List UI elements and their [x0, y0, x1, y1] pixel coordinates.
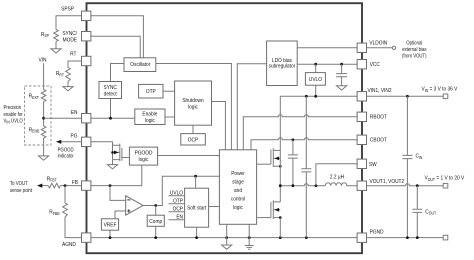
pin AGND — [82, 233, 91, 242]
wire SW rail with hop — [280, 184, 325, 186]
transistor Q3 PGOOD pulldown — [91, 142, 113, 145]
box LDO bias subregulator — [267, 41, 298, 86]
resistor RSP — [54, 30, 59, 42]
resistor RRT — [66, 68, 71, 82]
node CIN-PGND junction — [406, 236, 409, 239]
pin SYNC/MODE — [82, 32, 91, 41]
wire VLDOIN external — [367, 47, 393, 49]
svg-text:VIN: VIN — [39, 57, 47, 64]
svg-text:OTP: OTP — [173, 198, 183, 205]
resistor RENB — [41, 126, 46, 138]
box enable logic — [135, 109, 165, 125]
svg-text:PG: PG — [71, 133, 78, 140]
svg-text:OCP: OCP — [188, 137, 199, 144]
wire VIN rail — [280, 96, 357, 150]
box shutdown logic — [175, 81, 212, 125]
node comp junction — [154, 204, 157, 207]
svg-text:EN: EN — [176, 214, 183, 221]
terminal PGND — [443, 235, 448, 240]
node soft start-AGND junction — [195, 236, 198, 239]
svg-text:Oscillator: Oscillator — [130, 62, 150, 69]
IC outer boundary box — [87, 3, 363, 253]
svg-text:SPSP: SPSP — [61, 6, 74, 13]
ground earth (power stage) — [245, 246, 254, 250]
node VREF-AGND junction — [109, 236, 112, 239]
capacitor CBOOT internal — [288, 140, 298, 186]
op-amp U2 error amplifier — [126, 196, 143, 216]
wire enable logic to shutdown logic — [165, 116, 175, 118]
wire SW node vertical — [279, 150, 281, 185]
capacitor input internal — [301, 96, 311, 237]
svg-text:RT: RT — [70, 51, 77, 58]
wire RT pin to RRT — [68, 61, 82, 68]
svg-text:stage: stage — [232, 179, 244, 186]
inductor L1 2.2uH — [325, 183, 357, 186]
wire PG external — [58, 141, 82, 143]
wire FB external to RFBT — [60, 185, 81, 187]
svg-text:VREF: VREF — [104, 222, 117, 229]
box oscillator U-OSC — [124, 58, 156, 72]
node Q2 source-PGND junction — [279, 236, 282, 239]
arrow to VOUT sense point — [37, 184, 42, 188]
pin FB — [82, 181, 91, 190]
node VIN-UVLO junction — [314, 95, 317, 98]
wire soft start top — [195, 176, 197, 188]
resistor RFBB — [63, 203, 68, 217]
node input cap-PGND junction — [305, 236, 308, 239]
svg-text:UVLO: UVLO — [309, 77, 322, 84]
wire CBOOT internal with hops — [251, 138, 357, 150]
node EN internal junction — [109, 117, 112, 120]
box soft start — [185, 188, 209, 227]
wire SYNC/MODE internal to oscillator — [91, 36, 140, 58]
box VREF — [101, 219, 118, 230]
wire power stage ground 1 — [226, 224, 228, 245]
wire soft start to power stage — [209, 206, 220, 208]
arrow PGOOD indicator — [56, 140, 61, 144]
node VCC-cap junction — [340, 63, 343, 66]
wire shutdown logic to power stage — [212, 102, 226, 150]
node soft start junction — [194, 175, 197, 178]
wire VIN down to REXT — [43, 63, 45, 89]
svg-text:PGOOD: PGOOD — [58, 147, 75, 154]
box UVLO — [305, 73, 325, 86]
svg-text:external bias: external bias — [402, 47, 427, 54]
svg-text:AGND: AGND — [62, 242, 76, 249]
resistor REXT — [41, 90, 46, 102]
wire FB to error amp input — [110, 186, 126, 201]
box power stage and control logic — [219, 150, 256, 225]
pin RBOOT — [357, 112, 366, 121]
wire VCC to UVLO — [315, 64, 317, 72]
node Comp-AGND junction — [154, 236, 157, 239]
svg-text:EN: EN — [71, 110, 78, 117]
node CBOOT cap top — [292, 138, 295, 141]
svg-text:Comp: Comp — [149, 218, 162, 225]
pin VIN1 VIN2 — [357, 92, 366, 101]
svg-text:Soft start: Soft start — [187, 205, 207, 212]
capacitor CIN — [402, 96, 412, 237]
pin SW — [357, 159, 366, 168]
svg-text:2.2 µH: 2.2 µH — [330, 174, 344, 181]
box SYNC detect — [99, 82, 122, 99]
node COUT-PGND junction — [416, 236, 419, 239]
svg-text:logic: logic — [145, 118, 155, 125]
wire SYNC detect to EN line — [110, 99, 112, 119]
wire PGOOD logic to power stage — [158, 155, 220, 157]
wire oscillator to power stage — [156, 64, 232, 150]
svg-text:VLDOIN: VLDOIN — [369, 40, 387, 47]
wire VIN external — [367, 95, 444, 97]
wire soft start to AGND rail — [196, 227, 198, 237]
svg-text:indicator: indicator — [58, 153, 75, 160]
svg-text:OTP: OTP — [146, 89, 156, 96]
terminal optional bias circle — [392, 46, 395, 49]
svg-text:UVLO: UVLO — [170, 190, 183, 197]
ground (power stage analog) — [222, 245, 232, 249]
capacitor VCC bypass — [336, 64, 347, 86]
svg-text:logic: logic — [188, 104, 198, 111]
wire PGOOD logic gate — [122, 157, 129, 159]
wire VREF to error amp input — [115, 211, 126, 219]
svg-text:FB: FB — [72, 180, 79, 187]
svg-text:and: and — [234, 188, 242, 195]
svg-text:CBOOT: CBOOT — [370, 137, 388, 144]
node ground1-AGND junction — [225, 236, 228, 239]
wire comp tap — [155, 206, 157, 216]
svg-text:MODE: MODE — [63, 37, 78, 44]
wire arrow to RFBT — [39, 185, 48, 187]
wire SPSP pin to RSP — [56, 16, 82, 30]
node ground2-AGND junction — [248, 236, 251, 239]
wire soft start stub OTP — [169, 203, 185, 205]
ground (RSP) — [51, 49, 61, 53]
wire shutdown logic to OCP — [192, 125, 194, 133]
transistor Q1 high side — [257, 163, 271, 165]
resistor RFBT — [48, 183, 60, 188]
svg-text:(from VOUT): (from VOUT) — [402, 53, 427, 60]
node FB internal junction — [109, 184, 112, 187]
box OCP — [181, 134, 206, 145]
svg-text:VOUT1, VOUT2: VOUT1, VOUT2 — [370, 179, 405, 186]
node SW pin junction — [315, 184, 318, 187]
svg-text:logic: logic — [139, 157, 149, 164]
wire SW pin internal — [316, 164, 357, 186]
wire OTP to shutdown logic — [163, 90, 175, 92]
wire RBOOT internal with hops — [243, 115, 357, 150]
ground (RENB) — [39, 156, 49, 160]
wire REXT to RENB — [43, 102, 45, 127]
wire soft start stub UVLO — [169, 195, 185, 197]
terminal VIN — [443, 94, 448, 99]
svg-text:detect: detect — [104, 91, 118, 98]
terminal VOUT — [443, 183, 448, 188]
wire soft start stub EN — [169, 219, 185, 221]
ground (PGOOD pulldown) — [107, 165, 117, 169]
pin VCC — [357, 60, 366, 69]
wire error amp output — [143, 176, 219, 205]
svg-text:enable for: enable for — [4, 111, 24, 118]
wire Q2 drain and source — [279, 186, 281, 238]
node VIN-input cap junction — [305, 95, 308, 98]
box OTP — [139, 84, 163, 98]
ground (VCC cap) — [337, 86, 347, 90]
wire FB junction down — [64, 186, 66, 203]
svg-text:subregulator: subregulator — [269, 63, 296, 70]
pin PGND — [357, 233, 366, 242]
svg-text:Precision: Precision — [4, 105, 22, 112]
wire UVLO to VIN rail — [315, 85, 317, 96]
svg-text:Optional: Optional — [406, 40, 422, 47]
node EN divider junction — [42, 117, 45, 120]
pin PG — [82, 137, 91, 146]
capacitor COUT — [412, 186, 422, 238]
svg-text:RBOOT: RBOOT — [370, 114, 388, 121]
svg-text:Power: Power — [231, 171, 245, 178]
svg-text:SW: SW — [369, 162, 377, 169]
svg-text:To VOUT: To VOUT — [10, 181, 28, 188]
wire VREF to AGND rail — [109, 230, 111, 237]
svg-text:sense point: sense point — [10, 188, 33, 195]
svg-text:OCP: OCP — [173, 206, 184, 213]
node COUT-VOUT junction — [416, 184, 419, 187]
wire RFBB to AGND pin — [65, 217, 82, 238]
ground (RRT) — [63, 87, 73, 91]
wire AGND rail — [91, 237, 357, 239]
svg-text:control: control — [231, 196, 245, 203]
pin VOUT1 VOUT2 — [357, 181, 366, 190]
node VCC-UVLO junction — [314, 63, 317, 66]
wire Q3 source to ground — [112, 160, 114, 165]
pin CBOOT — [357, 135, 366, 144]
box PGOOD logic — [129, 147, 157, 165]
wire VOUT external with hop — [367, 184, 444, 186]
dashed box precision enable — [25, 86, 52, 145]
wire EN internal — [91, 117, 135, 119]
wire soft start stub OCP — [169, 211, 185, 213]
box Comp — [147, 215, 164, 226]
wire power stage ground 2 — [248, 224, 250, 245]
wire VLDOIN internal — [297, 47, 357, 49]
svg-text:VIN1, VIN2: VIN1, VIN2 — [368, 88, 392, 95]
wire Comp to AGND rail — [155, 226, 157, 237]
wire oscillator to SYNC detect — [111, 64, 125, 82]
pin RT — [82, 56, 91, 65]
wire RSP to ground — [55, 42, 57, 49]
node SW-CBOOT cap junction — [292, 184, 295, 187]
node FB divider junction — [64, 184, 67, 187]
pin EN — [82, 114, 91, 123]
pin SPSP — [82, 11, 91, 20]
node SW-FET junction — [279, 184, 282, 187]
wire EN external — [44, 117, 82, 119]
wire LDO input to power stage — [237, 64, 266, 150]
svg-text:PGND: PGND — [370, 229, 384, 236]
pin VLDOIN — [357, 43, 366, 52]
wire VCC internal — [297, 63, 357, 65]
node CIN-VIN junction — [406, 95, 409, 98]
wire FB internal — [91, 165, 142, 186]
wire PGND external — [367, 237, 444, 239]
svg-text:VCC: VCC — [370, 62, 380, 69]
wire RRT to ground — [67, 82, 69, 87]
wire SPSP internal to oscillator — [91, 16, 143, 58]
svg-text:logic: logic — [233, 205, 243, 212]
transistor Q2 low side — [257, 217, 271, 219]
wire RENB to ground — [43, 138, 45, 156]
